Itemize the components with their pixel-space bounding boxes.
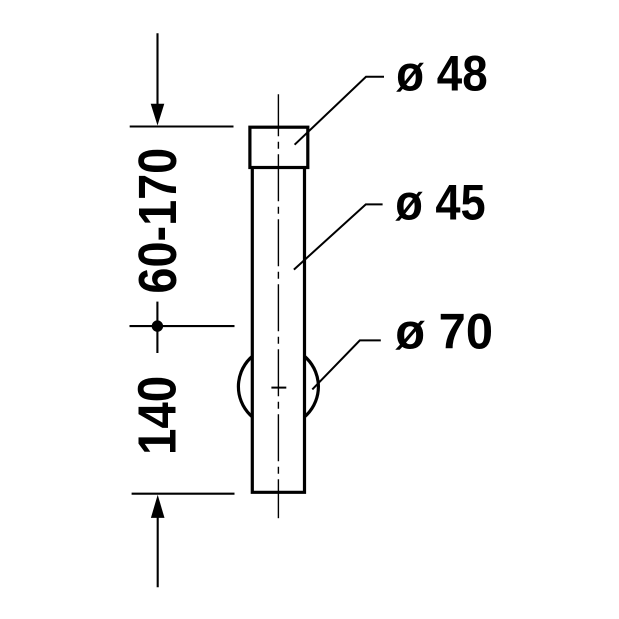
svg-text:140: 140	[128, 376, 188, 455]
middle dimension dot with stub line	[152, 302, 163, 353]
svg-text:60-170: 60-170	[128, 148, 188, 294]
leader line to ø45	[294, 204, 383, 269]
pipe cap (ø48 sleeve)	[250, 127, 308, 167]
centerline (dash-dot axis)	[277, 94, 279, 518]
svg-text:ø 70: ø 70	[395, 303, 493, 360]
svg-text:ø 45: ø 45	[395, 173, 486, 230]
top dimension arrow (pointing down)	[151, 33, 165, 125]
dimension tick middle	[130, 325, 235, 327]
bottom dimension arrow (pointing up)	[151, 495, 165, 587]
circle outline (ball joint, ø70)	[238, 347, 318, 427]
dimension tick top	[130, 125, 234, 127]
leader line to ø70	[312, 340, 381, 389]
svg-text:ø 48: ø 48	[396, 44, 488, 101]
pipe body (ø45 tube)	[252, 168, 304, 493]
circle center mark	[271, 387, 286, 389]
dimension tick bottom	[132, 493, 235, 495]
leader line to ø48	[295, 77, 384, 145]
